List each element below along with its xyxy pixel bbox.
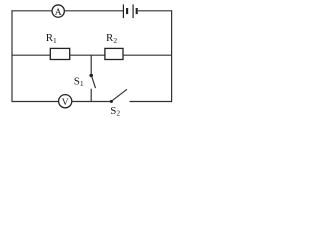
wire bottom-right segment: [130, 101, 172, 103]
wire bottom-left segment: [12, 101, 59, 103]
wire S1 branch lower: [90, 89, 92, 102]
resistor R2: [105, 48, 123, 59]
wire left vertical: [11, 10, 13, 102]
svg-text:R1: R1: [46, 32, 57, 45]
wire top-right segment: [138, 10, 172, 12]
switch S2 blade (open): [112, 89, 127, 100]
wire middle-right segment: [123, 54, 172, 56]
wire bottom-middle segment: [72, 101, 110, 103]
battery (two cells): [123, 4, 137, 18]
voltmeter V: [59, 95, 72, 109]
svg-text:R2: R2: [106, 32, 117, 45]
wire middle-center segment: [70, 54, 105, 56]
svg-text:A: A: [55, 8, 62, 18]
switch S2 contact dot: [110, 100, 113, 103]
wire top-middle segment: [64, 10, 123, 12]
wire top-left segment: [12, 10, 52, 12]
switch S1 blade (open): [92, 77, 96, 88]
svg-text:V: V: [62, 98, 69, 108]
svg-text:S1: S1: [74, 75, 84, 88]
ammeter A: [52, 5, 64, 18]
switch S1 contact dot: [89, 74, 93, 78]
svg-text:S2: S2: [110, 105, 120, 118]
wire right vertical: [171, 10, 173, 102]
resistor R1: [50, 48, 69, 59]
wire middle-left segment: [12, 54, 50, 56]
wire S1 branch upper: [90, 55, 92, 73]
